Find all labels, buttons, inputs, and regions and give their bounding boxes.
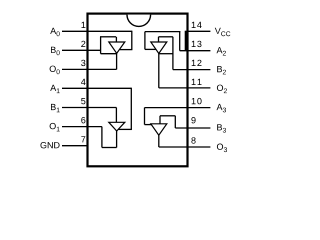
pin 5 wire B1 (62, 107, 116, 109)
pin 13 wire A2 (180, 50, 211, 52)
switch element Q2 (top-right) (151, 42, 167, 54)
switch element Q0 (top-left) (109, 42, 125, 53)
wire output vertical BR (158, 135, 160, 147)
pin 13 label A2 (217, 47, 226, 55)
pin number 14 (192, 22, 202, 28)
wire control drop BL (115, 108, 117, 123)
IC body outline U1 (88, 14, 188, 167)
wire vR BR (144, 108, 146, 125)
wire output vertical TL (116, 53, 118, 70)
pin number 9 (191, 117, 195, 123)
pin number 8 (191, 137, 195, 143)
pin 6 wire O1 (62, 126, 102, 128)
pin 4 wire A1 (62, 87, 131, 89)
wire riser a TR (179, 32, 181, 51)
pin 8 wire O3 (159, 146, 211, 148)
pin 6 label O1 (50, 123, 60, 131)
pin 9 label B3 (217, 124, 226, 133)
wire vR TR (144, 32, 146, 50)
switch element Q1 (bottom-left) (109, 122, 125, 131)
wire top rail TR (145, 31, 181, 33)
wire output bottom-leg BL (102, 147, 117, 149)
pin number 13 (192, 41, 202, 47)
pin 3 label O0 (50, 66, 60, 75)
pin 10 wire A3 (145, 107, 211, 109)
wire B riser BR (174, 116, 176, 128)
pin number 11 (192, 79, 202, 85)
pin 10 label A3 (217, 104, 227, 113)
wire right-terminal BL (119, 128, 132, 130)
wire control drop BR (159, 116, 161, 124)
pin 7 wire GND (62, 145, 88, 147)
pin 5 label B1 (51, 104, 60, 112)
wire control rail BR (160, 115, 175, 117)
wire right-terminal BR (145, 124, 152, 126)
pin 12 wire B2 (173, 69, 211, 71)
pin number 2 (81, 41, 85, 47)
wire output down-leg BL (101, 127, 103, 148)
pin 14 label VCC (215, 28, 231, 37)
pin 14 wire VCC (188, 30, 211, 32)
pin 11 wire O2 (159, 87, 211, 89)
pin 3 wire O0 (62, 68, 117, 70)
wire output vertical BL (116, 131, 118, 148)
pin 1 label A0 (50, 28, 60, 37)
pin 2 wire B0 (62, 49, 101, 51)
pin number 5 (81, 98, 85, 104)
pin number 7 (81, 136, 85, 142)
pin number 12 (192, 60, 202, 66)
pin 1 wire A0 (62, 30, 132, 32)
wire left-terminal TL (101, 53, 117, 55)
wire control drop TR (158, 37, 160, 42)
pin number 4 (81, 79, 86, 85)
wire right-terminal TR (159, 53, 173, 55)
pin 2 label B0 (51, 47, 60, 56)
wire output vertical TR (158, 53, 160, 88)
pin 9 wire B3 (175, 127, 210, 129)
pin number 10 (192, 98, 202, 104)
wire control rail TL (100, 36, 116, 38)
wire control rail TR (159, 36, 173, 38)
switch element Q3 (bottom-right) (151, 124, 167, 135)
wire left-terminal TR (145, 48, 156, 50)
wire vR BL (130, 88, 132, 130)
wire vL TL (100, 37, 102, 54)
pin 8 label O3 (217, 144, 227, 153)
wire control drop TL (115, 37, 117, 42)
pin number 3 (81, 60, 85, 66)
pin 4 label A1 (50, 85, 60, 93)
wire right-terminal TL (120, 49, 133, 51)
pin number 6 (81, 117, 85, 123)
pin 12 label B2 (217, 66, 226, 74)
wire vR TL (131, 31, 133, 50)
pin 11 label O2 (217, 85, 227, 94)
wire riser b TR (VCC corner) (185, 31, 188, 51)
index notch (127, 15, 151, 27)
pin number 1 (82, 22, 86, 28)
pin 7 label GND (41, 142, 60, 148)
wire vL TR (172, 37, 174, 70)
